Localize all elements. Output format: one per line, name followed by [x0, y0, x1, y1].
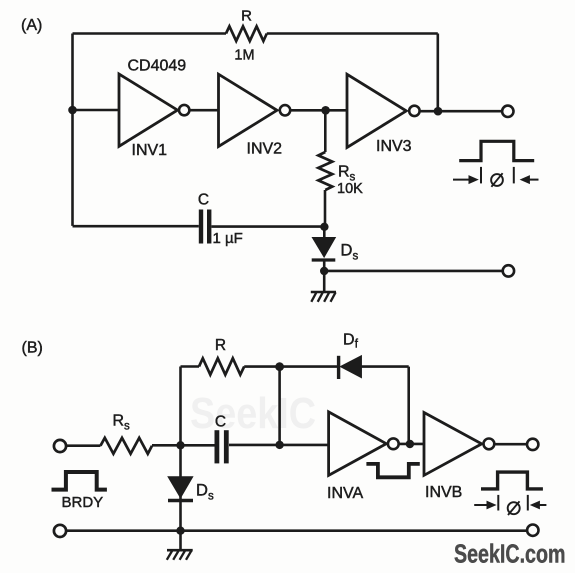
svg-text:SeekIC: SeekIC [190, 389, 316, 438]
tick marks A [481, 167, 514, 184]
label Rs [338, 164, 356, 184]
wire ground stub A [323, 271, 326, 292]
node cap-Rs junction [320, 223, 328, 231]
svg-text:s: s [124, 421, 130, 433]
wire top row B left [181, 365, 200, 368]
op-amp inverter INVB [424, 413, 494, 476]
svg-text:(B): (B) [22, 340, 43, 357]
node ground junction B [176, 527, 184, 535]
diode D3 Ds B [168, 477, 193, 501]
resistor R4 R B [199, 358, 244, 374]
node Rs tap [321, 106, 330, 115]
wire INV1 input [73, 109, 120, 112]
terminal input B [54, 440, 66, 452]
op-amp inverter INVA [329, 412, 399, 476]
wire cross rail B [278, 367, 281, 445]
terminal output A top [502, 106, 513, 117]
capacitor C1 [201, 210, 209, 244]
node left rail junction [68, 106, 77, 115]
wire vertical rail B [179, 367, 182, 532]
svg-text:R: R [113, 413, 125, 430]
svg-text:10K: 10K [337, 181, 363, 197]
svg-text:C: C [198, 192, 209, 209]
node output row junction [320, 267, 328, 275]
wire Df corner down [407, 367, 410, 446]
svg-text:f: f [355, 339, 359, 351]
wire ground stub B [179, 531, 182, 550]
svg-text:CD4049: CD4049 [128, 58, 187, 75]
svg-text:(A): (A) [21, 17, 42, 34]
wire bottom rail B [66, 529, 527, 532]
arrow left A [453, 175, 479, 184]
svg-text:BRDY: BRDY [62, 494, 104, 511]
resistor R2 Rs 10K [318, 152, 332, 190]
op-amp inverter INV2 [219, 74, 291, 146]
wire left rail A [71, 34, 74, 226]
wire INVB out [494, 443, 527, 446]
waveform BRDY [52, 472, 107, 490]
resistor R1 1M [226, 26, 267, 41]
phi symbol B [508, 501, 520, 515]
svg-text:s: s [353, 250, 359, 262]
waveform pulse B [481, 472, 543, 489]
label Ds A [341, 241, 359, 262]
svg-text:D: D [343, 332, 355, 349]
terminal output B top [527, 439, 538, 450]
node feedback junction [434, 107, 443, 116]
svg-text:R: R [241, 8, 252, 25]
node cap right junction [275, 441, 283, 449]
ground A [311, 292, 336, 302]
waveform notch INVA [366, 464, 419, 477]
diode D1 Ds [312, 238, 336, 260]
arrow left B [474, 501, 496, 510]
wire INV1-INV2 [189, 109, 218, 112]
node INVA out junction [406, 440, 414, 448]
resistor R3 Rs B [101, 438, 153, 454]
wire capacitor row right [212, 225, 325, 228]
node top junction B [275, 362, 284, 371]
svg-text:R: R [215, 337, 226, 354]
svg-text:INV2: INV2 [247, 141, 283, 158]
wire input B [67, 444, 101, 447]
wire INV2-INV3 [290, 109, 347, 112]
svg-text:D: D [341, 241, 353, 259]
terminal output A bottom [503, 265, 514, 276]
capacitor C2 B [217, 430, 226, 463]
waveform pulse A [459, 141, 534, 160]
svg-text:SeekIC.com: SeekIC.com [454, 539, 566, 569]
wire capacitor row left [73, 225, 199, 228]
wire INVA out [399, 443, 424, 446]
svg-text:R: R [338, 164, 350, 181]
svg-text:INV3: INV3 [376, 138, 412, 155]
svg-text:INV1: INV1 [132, 142, 168, 159]
phi symbol A [491, 173, 503, 187]
svg-text:1M: 1M [234, 48, 254, 64]
wire output row A [324, 270, 502, 273]
svg-text:C: C [215, 414, 226, 431]
wire feedback rail down [436, 34, 439, 112]
tick marks B [498, 495, 528, 511]
wire Rs-cap [152, 444, 215, 447]
svg-text:INVB: INVB [425, 484, 462, 501]
terminal bottom right B [527, 525, 538, 536]
wire Rs bottom [324, 190, 327, 227]
op-amp inverter INV3 [347, 74, 420, 147]
label Rs B [113, 413, 131, 433]
label Ds B [196, 482, 214, 503]
wire diode Ds top [323, 227, 326, 238]
svg-text:s: s [208, 490, 214, 502]
ground B [167, 550, 193, 560]
wire cap to INVA [229, 444, 329, 447]
wire Rs top [324, 110, 327, 152]
wire diode Ds bottom [323, 262, 326, 272]
label Df [343, 332, 359, 351]
arrow right A [520, 175, 539, 184]
op-amp inverter INV1 [119, 74, 189, 146]
wire top feedback right [267, 32, 438, 35]
arrow right B [530, 501, 547, 510]
terminal bottom left B [54, 525, 66, 537]
svg-text:D: D [196, 482, 208, 500]
wire top feedback left [73, 32, 227, 35]
diode D2 Df [339, 356, 362, 379]
wire top row B right [361, 365, 409, 368]
svg-text:1 µF: 1 µF [213, 230, 243, 247]
svg-text:INVA: INVA [327, 485, 363, 502]
wire top row B mid [244, 365, 337, 368]
wire INV3 output [420, 110, 502, 113]
node junction A B-part [176, 441, 184, 449]
